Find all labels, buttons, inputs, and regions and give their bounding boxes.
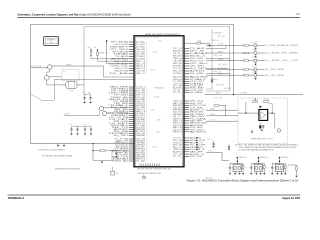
svg-text:BUS_Y: BUS_Y bbox=[253, 72, 258, 74]
svg-text:SK_EE: SK_EE bbox=[218, 74, 223, 76]
svg-text:RX_DAT: RX_DAT bbox=[136, 160, 145, 163]
svg-text:UC_TX_: UC_TX_ bbox=[173, 156, 182, 158]
svg-text:6816981H01-A: 6816981H01-A bbox=[8, 197, 24, 200]
svg-text:SW_B+: SW_B+ bbox=[216, 93, 221, 95]
svg-text:TX_D: TX_D bbox=[82, 93, 85, 95]
svg-text:UC_TX_E: UC_TX_E bbox=[210, 120, 217, 122]
svg-text:REF_: REF_ bbox=[276, 163, 280, 165]
svg-text:RX_DATA: RX_DATA bbox=[190, 91, 203, 94]
svg-text:CLK_OU: CLK_OU bbox=[208, 150, 214, 152]
svg-text:CLK: CLK bbox=[226, 167, 229, 169]
svg-text:UC_TX: UC_TX bbox=[253, 49, 258, 51]
svg-text:SHLD GND: SHLD GND bbox=[205, 178, 212, 180]
svg-text:UNSW_B+: UNSW_B+ bbox=[281, 157, 289, 159]
svg-text:CLK_: CLK_ bbox=[63, 71, 67, 73]
svg-text:UNSW_B+: UNSW_B+ bbox=[239, 157, 247, 159]
svg-text:SHT BOOST CKT: SHT BOOST CKT bbox=[251, 138, 273, 140]
svg-text:August 24, 2007: August 24, 2007 bbox=[282, 197, 301, 200]
svg-text:OPT_SE: OPT_SE bbox=[213, 71, 221, 73]
svg-text:LV_DE: LV_DE bbox=[253, 57, 257, 59]
svg-text:DI_EE: DI_EE bbox=[150, 110, 154, 112]
svg-text:DI_EE: DI_EE bbox=[218, 64, 227, 66]
svg-text:Schematics, Component Location: Schematics, Component Location Diagrams,… bbox=[17, 12, 130, 16]
svg-text:U_3V_EN: U_3V_EN bbox=[265, 75, 286, 77]
svg-text:UNSW_5V: UNSW_5V bbox=[99, 52, 108, 54]
svg-text:U_SW_FL_WR: U_SW_FL_WR bbox=[265, 53, 300, 55]
svg-text:COL1: COL1 bbox=[108, 105, 112, 107]
svg-text:DO_EE: DO_EE bbox=[152, 147, 157, 149]
svg-text:MOD_: MOD_ bbox=[88, 47, 92, 49]
svg-text:U0201 HUC4022X CONTROLLER IC: U0201 HUC4022X CONTROLLER IC bbox=[145, 34, 180, 36]
svg-text:REF_: REF_ bbox=[94, 47, 98, 49]
svg-text:UNSW_B+: UNSW_B+ bbox=[115, 142, 122, 144]
svg-text:U_SW_FL_CS: U_SW_FL_CS bbox=[265, 60, 298, 62]
svg-text:U_TX_EN: U_TX_EN bbox=[240, 93, 247, 95]
svg-text:UC_TX_: UC_TX_ bbox=[173, 92, 182, 94]
svg-text:SYN_LOCK: SYN_LOCK bbox=[190, 156, 203, 158]
svg-text:DATA0: DATA0 bbox=[136, 134, 145, 137]
svg-text:ROW1: ROW1 bbox=[173, 73, 182, 75]
svg-text:ADDR1: ADDR1 bbox=[190, 130, 209, 133]
svg-text:MIC_HI: MIC_HI bbox=[210, 114, 216, 116]
svg-text:SK_E: SK_E bbox=[233, 163, 236, 165]
svg-text:UC_R: UC_R bbox=[84, 124, 88, 126]
svg-text:SHOWN FROM SOLDER SIDE: SHOWN FROM SOLDER SIDE bbox=[55, 168, 80, 170]
svg-text:CS_EE: CS_EE bbox=[152, 52, 157, 54]
svg-text:SQ_DET: SQ_DET bbox=[114, 135, 130, 137]
svg-text:LV_DET: LV_DET bbox=[64, 113, 69, 115]
svg-text:SQ_DE: SQ_DE bbox=[69, 90, 74, 92]
svg-text:UNSW_B+: UNSW_B+ bbox=[260, 157, 268, 159]
svg-text:MECH_S: MECH_S bbox=[173, 131, 183, 133]
svg-text:VOL_WI: VOL_WI bbox=[214, 98, 223, 100]
svg-text:OPT_SE: OPT_SE bbox=[214, 55, 222, 57]
svg-text:SK_EE: SK_EE bbox=[218, 44, 223, 46]
svg-text:UC_TX_EN: UC_TX_EN bbox=[218, 68, 226, 70]
svg-text:ROW0: ROW0 bbox=[264, 99, 268, 101]
svg-text:DI_EE: DI_EE bbox=[109, 73, 130, 75]
svg-text:OPT_: OPT_ bbox=[70, 124, 74, 126]
svg-text:7-5: 7-5 bbox=[295, 12, 299, 16]
svg-text:MOD_OU: MOD_OU bbox=[216, 85, 224, 87]
svg-text:HUC4022X: HUC4022X bbox=[154, 88, 164, 90]
svg-text:SK_EE: SK_EE bbox=[154, 97, 159, 99]
svg-text:OPT_SE: OPT_SE bbox=[217, 36, 225, 38]
svg-text:RESET: RESET bbox=[211, 79, 218, 81]
svg-text:TP_PTT_IN: TP_PTT_IN bbox=[31, 66, 41, 68]
svg-text:REF_CL: REF_CL bbox=[136, 73, 145, 75]
svg-text:1 OF 2: 1 OF 2 bbox=[49, 42, 53, 44]
svg-text:RSSI_AD: RSSI_AD bbox=[112, 160, 129, 163]
svg-text:LV_: LV_ bbox=[268, 167, 270, 169]
svg-text:HUC4022X CONTROLLER: HUC4022X CONTROLLER bbox=[138, 173, 162, 175]
svg-text:CS_: CS_ bbox=[247, 167, 250, 169]
svg-text:MOD_O: MOD_O bbox=[150, 70, 156, 72]
svg-text:47K: 47K bbox=[287, 167, 289, 169]
svg-text:LV_: LV_ bbox=[146, 177, 148, 179]
svg-text:U_5V_EN: U_5V_EN bbox=[265, 69, 286, 71]
svg-text:DI_EE: DI_EE bbox=[190, 73, 205, 75]
svg-text:CNTL: CNTL bbox=[157, 120, 161, 122]
svg-text:OPT_S: OPT_S bbox=[253, 99, 258, 101]
svg-text:SYN_LO: SYN_LO bbox=[207, 139, 213, 141]
svg-text:UC_TX: UC_TX bbox=[253, 66, 258, 68]
svg-text:Figure 7-3. HUC4022X Controlle: Figure 7-3. HUC4022X Controller Block Di… bbox=[187, 179, 298, 183]
svg-text:TO SHEET 1: TO SHEET 1 bbox=[47, 40, 56, 42]
